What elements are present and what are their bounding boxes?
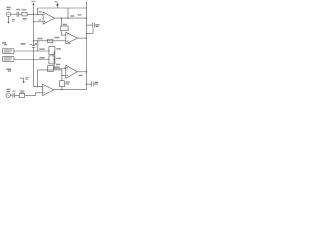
node junction xyxy=(86,71,87,72)
node VIN1 label xyxy=(7,7,11,10)
wire xyxy=(61,87,63,90)
resistor R5 xyxy=(49,56,55,64)
capacitor C2 xyxy=(87,23,98,28)
wire output U1B xyxy=(77,37,86,39)
resistor R1 xyxy=(22,13,27,16)
node junction xyxy=(86,33,87,34)
node sine mark VS2 xyxy=(7,95,9,96)
wire output U1D xyxy=(54,89,87,91)
node R4 label xyxy=(56,48,61,50)
node junction xyxy=(67,17,68,18)
source VS2 xyxy=(6,93,10,97)
node junction xyxy=(86,37,87,38)
wire xyxy=(27,13,43,15)
node R2 label xyxy=(63,24,67,26)
wire non-inverting U1D with jog xyxy=(25,93,43,96)
node label xyxy=(39,11,42,12)
node junction xyxy=(86,7,87,8)
wire xyxy=(14,50,50,52)
op-amp U1A xyxy=(43,12,54,24)
ground GND VS1 xyxy=(7,16,9,23)
node junction xyxy=(61,89,62,90)
wire xyxy=(10,94,12,96)
node VIN-mid labels xyxy=(2,42,37,45)
wire non-inverting U1C xyxy=(62,74,66,76)
wire inverting U1D xyxy=(34,86,43,88)
node junction xyxy=(33,14,34,15)
wire drop from top rail xyxy=(67,8,69,18)
node VIN2 label xyxy=(7,69,12,72)
node R1 label xyxy=(22,9,27,20)
node label xyxy=(39,48,45,50)
power V+ arrow xyxy=(55,1,59,8)
node R3 labels xyxy=(37,37,59,40)
node junction xyxy=(54,59,55,60)
resistor R7 xyxy=(60,81,65,87)
wire bus xyxy=(86,2,88,90)
node U1B label xyxy=(68,43,71,44)
wire feedback to inverting U1B xyxy=(62,31,66,35)
wire non-inverting U1A xyxy=(34,21,44,23)
wire non-inverting U1B xyxy=(34,40,66,42)
node GND label xyxy=(12,19,15,21)
block BOX1 xyxy=(3,49,15,54)
node C2 label xyxy=(96,24,100,27)
node OUTC label xyxy=(79,75,83,77)
wire bias column lower xyxy=(33,47,35,86)
node C1 label xyxy=(16,9,20,10)
block BOX2 xyxy=(3,56,15,61)
node labels near U1C xyxy=(56,64,68,69)
node label xyxy=(39,19,42,20)
wire tie xyxy=(37,41,39,51)
wire feedback riser U1A xyxy=(37,8,39,14)
node junction xyxy=(33,40,34,41)
wire xyxy=(11,13,17,15)
resistor R4 xyxy=(49,47,55,55)
wire output U1A xyxy=(55,17,87,19)
node junction xyxy=(33,21,34,22)
wire xyxy=(14,59,50,61)
node R5 label xyxy=(56,58,61,59)
wire output U1C xyxy=(77,71,86,73)
capacitor C4 xyxy=(87,82,97,87)
node C4 label xyxy=(95,82,98,85)
node R8 label xyxy=(20,90,25,93)
node junction xyxy=(37,40,38,41)
resistor R8 xyxy=(19,93,25,97)
wire xyxy=(19,13,22,15)
node junction xyxy=(37,50,38,51)
capacitor C3 xyxy=(13,93,15,98)
node VIN3 label xyxy=(7,89,11,92)
wire top rail xyxy=(38,7,87,9)
wire feedback drop U1D xyxy=(61,70,63,81)
op-amp U1B xyxy=(66,32,78,44)
node R7 label xyxy=(65,81,69,84)
resistor R2 xyxy=(61,26,68,31)
capacitor C5 in column xyxy=(32,46,35,48)
capacitor C1 xyxy=(17,12,19,17)
node junction xyxy=(86,83,87,84)
wire bias column upper xyxy=(33,3,35,45)
wire drop to R2 xyxy=(61,18,63,26)
wire feedback riser U1D xyxy=(37,70,39,87)
node sine mark VS1 xyxy=(8,14,10,15)
node label xyxy=(39,57,45,59)
node OUTA label xyxy=(70,14,81,17)
node R6 label xyxy=(54,67,59,69)
resistor R6 xyxy=(48,66,54,72)
node junction xyxy=(61,17,62,18)
node C5 label xyxy=(30,44,32,45)
power VDD arrow xyxy=(31,1,35,5)
wire xyxy=(15,94,20,96)
node junction xyxy=(37,86,38,87)
node junction xyxy=(37,14,38,15)
op-amp U1C xyxy=(66,65,78,78)
wire feedback top U1D xyxy=(38,69,62,71)
ground GND1 arrow xyxy=(20,77,29,83)
node junction bus xyxy=(86,17,87,18)
resistor R3 xyxy=(48,39,53,42)
node C3 label xyxy=(13,91,16,92)
wire stub below C2 xyxy=(87,28,94,33)
wire column B to U1C xyxy=(54,51,66,69)
op-amp U1D xyxy=(43,84,54,95)
node junction xyxy=(61,75,62,76)
source VS1 xyxy=(6,12,11,17)
